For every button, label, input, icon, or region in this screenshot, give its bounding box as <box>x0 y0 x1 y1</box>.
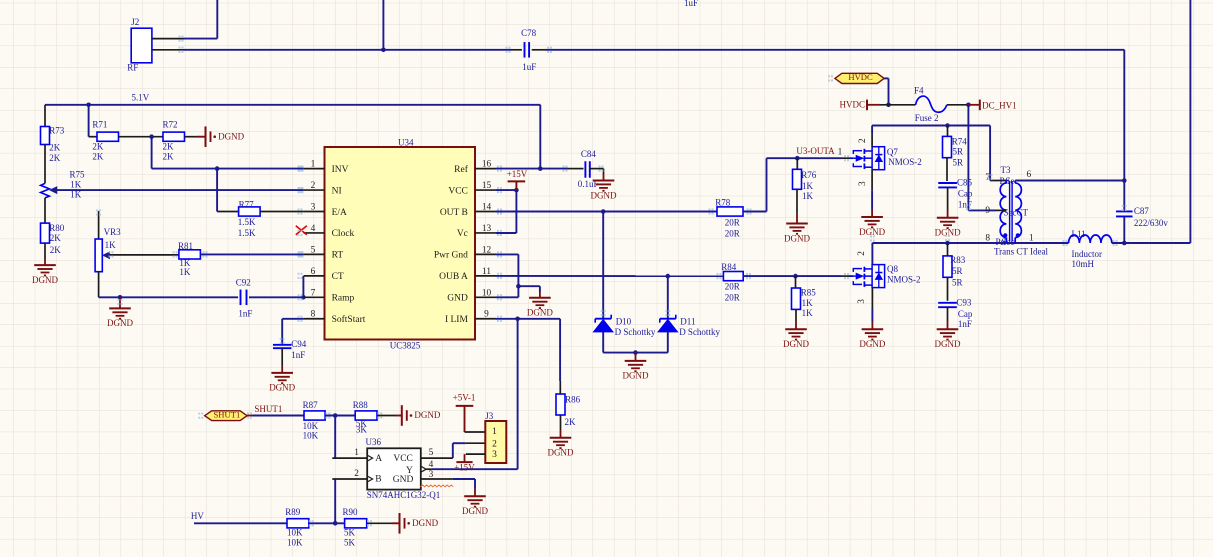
svg-text:R75: R75 <box>70 170 86 180</box>
svg-text:2K: 2K <box>163 151 175 161</box>
svg-text:2: 2 <box>311 181 316 191</box>
svg-text:16: 16 <box>482 160 492 170</box>
svg-text:R84: R84 <box>721 262 737 272</box>
svg-text:2K: 2K <box>92 142 104 152</box>
svg-text:20R: 20R <box>725 282 740 292</box>
svg-text:20R: 20R <box>725 292 740 302</box>
svg-text:+5V-1: +5V-1 <box>453 392 476 402</box>
svg-text:INV: INV <box>332 165 349 175</box>
svg-text:Q7: Q7 <box>887 147 898 157</box>
svg-text:2K: 2K <box>50 233 62 243</box>
svg-text:10K: 10K <box>287 538 303 548</box>
svg-text:DGND: DGND <box>414 410 440 420</box>
svg-text:DGND: DGND <box>859 339 885 349</box>
svg-text:R77: R77 <box>239 199 255 209</box>
svg-text:DGND: DGND <box>591 190 617 200</box>
svg-text:Cap: Cap <box>958 309 973 319</box>
svg-text:1nF: 1nF <box>958 319 972 329</box>
svg-text:Clock: Clock <box>332 229 355 239</box>
svg-text:DGND: DGND <box>412 518 438 528</box>
svg-text:12: 12 <box>482 245 492 255</box>
svg-text:2: 2 <box>858 138 868 143</box>
svg-text:T3: T3 <box>1001 165 1011 175</box>
svg-text:Trans CT Ideal: Trans CT Ideal <box>994 246 1048 256</box>
svg-text:2K: 2K <box>163 142 175 152</box>
svg-text:1K: 1K <box>70 180 82 190</box>
svg-text:15: 15 <box>482 181 492 191</box>
svg-text:3: 3 <box>858 181 868 186</box>
svg-text:B: B <box>375 475 381 485</box>
svg-text:1K: 1K <box>105 240 117 250</box>
svg-text:Pwr Gnd: Pwr Gnd <box>434 251 468 261</box>
svg-text:14: 14 <box>482 203 492 213</box>
svg-text:R71: R71 <box>92 120 107 130</box>
svg-text:DGND: DGND <box>462 506 488 516</box>
svg-text:5R: 5R <box>952 266 963 276</box>
svg-text:222/630v: 222/630v <box>1134 218 1169 228</box>
svg-text:1: 1 <box>1029 233 1034 243</box>
svg-text:C94: C94 <box>291 339 307 349</box>
svg-text:F4: F4 <box>914 85 924 95</box>
svg-text:DGND: DGND <box>269 383 295 393</box>
svg-text:2K: 2K <box>565 417 577 427</box>
svg-text:Vc: Vc <box>457 229 468 239</box>
svg-text:5K: 5K <box>344 527 356 537</box>
svg-text:HV: HV <box>191 511 204 521</box>
svg-text:R81: R81 <box>178 241 193 251</box>
svg-text:R73: R73 <box>49 126 65 136</box>
svg-text:R87: R87 <box>303 400 319 410</box>
svg-text:U34: U34 <box>398 137 414 147</box>
svg-text:CT: CT <box>332 272 344 282</box>
svg-text:13: 13 <box>482 224 492 234</box>
svg-text:C85: C85 <box>957 178 973 188</box>
svg-text:C87: C87 <box>1134 206 1150 216</box>
svg-text:SHUT1: SHUT1 <box>214 410 241 420</box>
svg-text:DGND: DGND <box>218 131 244 141</box>
svg-text:D Schottky: D Schottky <box>679 327 720 337</box>
svg-text:20R: 20R <box>725 229 740 239</box>
svg-text:DGND: DGND <box>32 275 58 285</box>
svg-text:1: 1 <box>354 448 359 458</box>
svg-text:D Schottky: D Schottky <box>615 327 656 337</box>
svg-text:R83: R83 <box>950 255 966 265</box>
svg-text:2: 2 <box>354 469 359 479</box>
svg-text:5R: 5R <box>952 277 963 287</box>
svg-text:9: 9 <box>484 310 489 320</box>
svg-text:10mH: 10mH <box>1072 259 1095 269</box>
svg-text:DGND: DGND <box>935 339 961 349</box>
svg-text:1.5K: 1.5K <box>238 217 256 227</box>
svg-text:I LIM: I LIM <box>445 315 469 325</box>
svg-text:2K: 2K <box>49 153 61 163</box>
svg-text:5K: 5K <box>344 538 356 548</box>
svg-text:6: 6 <box>311 267 316 277</box>
svg-text:GND: GND <box>447 294 468 304</box>
svg-text:1nF: 1nF <box>291 350 305 360</box>
svg-text:U36: U36 <box>366 437 382 447</box>
svg-text:C84: C84 <box>581 149 597 159</box>
svg-text:11: 11 <box>482 267 491 277</box>
svg-text:Cap: Cap <box>958 188 973 198</box>
svg-text:R89: R89 <box>285 507 301 517</box>
svg-text:2K: 2K <box>92 151 104 161</box>
svg-text:DC_HV1: DC_HV1 <box>982 101 1017 111</box>
svg-text:1K: 1K <box>802 191 814 201</box>
svg-text:8: 8 <box>311 310 316 320</box>
svg-text:8: 8 <box>985 233 990 243</box>
svg-text:HVDC: HVDC <box>839 100 865 110</box>
svg-text:SN74AHC1G32-Q1: SN74AHC1G32-Q1 <box>367 490 441 500</box>
svg-text:SHUT1: SHUT1 <box>254 404 282 414</box>
svg-text:1K: 1K <box>802 308 814 318</box>
svg-text:R86: R86 <box>565 395 581 405</box>
svg-text:10K: 10K <box>303 431 319 441</box>
svg-text:1K: 1K <box>70 190 82 200</box>
svg-text:R76: R76 <box>801 170 817 180</box>
svg-text:5R: 5R <box>953 147 964 157</box>
svg-text:3K: 3K <box>356 424 368 434</box>
svg-text:+15V: +15V <box>507 169 528 179</box>
svg-text:1K: 1K <box>802 298 814 308</box>
svg-text:C78: C78 <box>521 28 537 38</box>
svg-text:U3-OUTA: U3-OUTA <box>796 146 835 156</box>
svg-text:OUT B: OUT B <box>440 208 468 218</box>
svg-text:J3: J3 <box>485 411 494 421</box>
svg-text:R88: R88 <box>353 400 369 410</box>
svg-text:E/A: E/A <box>332 208 347 218</box>
svg-text:DGND: DGND <box>623 371 649 381</box>
svg-text:Inductor: Inductor <box>1072 249 1103 259</box>
svg-text:Q8: Q8 <box>887 264 898 274</box>
svg-text:Ramp: Ramp <box>332 294 355 304</box>
svg-text:3: 3 <box>492 450 497 460</box>
svg-text:R80: R80 <box>49 223 65 233</box>
svg-text:RT: RT <box>332 251 344 261</box>
svg-text:VR3: VR3 <box>104 227 122 237</box>
svg-text:10: 10 <box>482 288 492 298</box>
svg-text:1: 1 <box>838 148 843 158</box>
svg-text:+15V: +15V <box>454 462 475 472</box>
svg-text:1.5K: 1.5K <box>238 228 256 238</box>
svg-text:20R: 20R <box>725 218 740 228</box>
svg-text:6: 6 <box>1027 170 1032 180</box>
svg-text:2K: 2K <box>50 245 62 255</box>
svg-text:DGND: DGND <box>859 227 885 237</box>
svg-text:10K: 10K <box>303 421 319 431</box>
svg-text:Fuse 2: Fuse 2 <box>915 113 939 123</box>
svg-text:R72: R72 <box>163 120 178 130</box>
svg-text:D10: D10 <box>616 316 632 326</box>
svg-text:Ref: Ref <box>454 164 469 175</box>
svg-text:5: 5 <box>311 245 316 255</box>
svg-text:9: 9 <box>985 206 990 216</box>
svg-text:7: 7 <box>311 288 316 298</box>
svg-text:1uF: 1uF <box>684 0 698 8</box>
svg-text:GND: GND <box>393 475 414 485</box>
svg-text:2K: 2K <box>49 143 61 153</box>
svg-text:SoftStart: SoftStart <box>332 314 366 325</box>
svg-text:DGND: DGND <box>784 233 810 243</box>
svg-text:J2: J2 <box>131 17 139 27</box>
svg-text:D11: D11 <box>680 316 695 326</box>
svg-text:DGND: DGND <box>548 448 574 458</box>
svg-text:DGND: DGND <box>107 318 133 328</box>
svg-text:2: 2 <box>857 251 867 256</box>
svg-text:5: 5 <box>429 448 434 458</box>
svg-text:R90: R90 <box>343 507 359 517</box>
svg-text:4: 4 <box>311 224 316 234</box>
svg-text:1: 1 <box>492 427 497 437</box>
svg-text:DGND: DGND <box>935 228 961 238</box>
svg-text:1nF: 1nF <box>238 309 252 319</box>
svg-text:DGND: DGND <box>527 308 553 318</box>
svg-text:C92: C92 <box>236 278 251 288</box>
svg-text:5.1V: 5.1V <box>132 93 150 103</box>
svg-text:NMOS-2: NMOS-2 <box>887 275 921 285</box>
svg-text:C93: C93 <box>956 297 972 307</box>
svg-text:DGND: DGND <box>783 339 809 349</box>
svg-text:3: 3 <box>311 203 316 213</box>
svg-text:2: 2 <box>492 440 497 450</box>
svg-text:1: 1 <box>311 160 316 170</box>
svg-text:1K: 1K <box>802 181 814 191</box>
svg-text:R85: R85 <box>801 288 817 298</box>
svg-text:VCC: VCC <box>393 454 413 464</box>
svg-text:1uF: 1uF <box>522 62 536 72</box>
svg-text:RF: RF <box>127 62 138 72</box>
svg-text:A: A <box>375 454 382 464</box>
svg-text:NI: NI <box>332 186 342 196</box>
svg-text:VCC: VCC <box>448 186 468 196</box>
svg-text:3: 3 <box>857 299 867 304</box>
svg-text:UC3825: UC3825 <box>390 341 421 351</box>
svg-text:1K: 1K <box>179 267 191 277</box>
svg-text:OUB A: OUB A <box>439 272 468 282</box>
svg-text:10K: 10K <box>287 527 303 537</box>
svg-text:5R: 5R <box>953 158 964 168</box>
svg-text:NMOS-2: NMOS-2 <box>888 157 922 167</box>
svg-text:HVDC: HVDC <box>848 72 873 82</box>
svg-text:R74: R74 <box>952 136 968 146</box>
svg-text:R78: R78 <box>715 198 731 208</box>
